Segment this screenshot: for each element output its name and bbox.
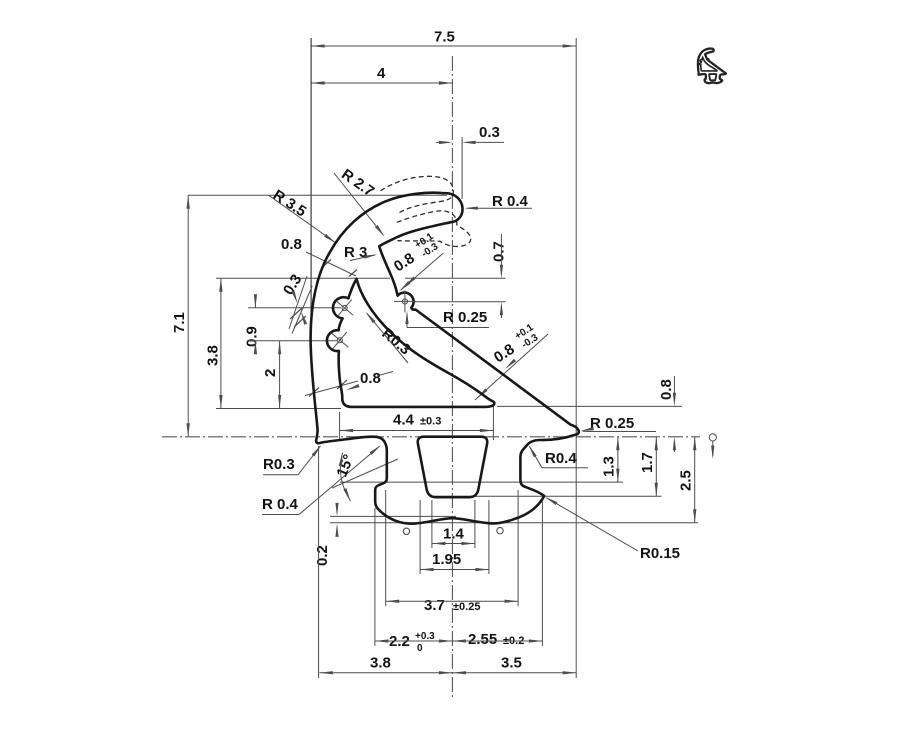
ext y=278.3 left — [216, 277, 390, 279]
svg-text:R 0.4: R 0.4 — [492, 193, 529, 210]
svg-text:1.3: 1.3 — [601, 456, 618, 477]
ext y=522.8 — [330, 522, 698, 524]
dim 4 line — [311, 82, 452, 84]
svg-text:3.8: 3.8 — [205, 345, 222, 366]
ext 3.8/3.5 bottom — [318, 446, 320, 678]
ext y=278.3 right — [405, 277, 506, 279]
dim 0.8 tol blade root — [389, 231, 442, 276]
ext 0.3 top — [461, 137, 463, 199]
center mark blade nub — [394, 290, 416, 312]
ext y=307.8 — [248, 307, 341, 309]
svg-text:4: 4 — [377, 65, 386, 82]
svg-text:0.3: 0.3 — [479, 124, 500, 141]
svg-text:2.5: 2.5 — [678, 470, 695, 491]
ext y=408.5 left — [216, 408, 341, 410]
ext y=482.1 — [340, 481, 623, 483]
svg-text:R0.15: R0.15 — [640, 545, 680, 562]
svg-text:0.9: 0.9 — [244, 326, 261, 347]
foot small circle right — [497, 527, 503, 533]
cavity (hollow chamber) — [327, 279, 494, 407]
svg-text:±0.3: ±0.3 — [420, 416, 441, 428]
dim 0.8 tol blade — [489, 322, 542, 367]
svg-text:1.95: 1.95 — [432, 551, 461, 568]
svg-text:R 0.25: R 0.25 — [443, 309, 487, 326]
svg-text:R0.3: R0.3 — [263, 456, 295, 473]
center mark cavity nub2 — [324, 325, 355, 356]
trapezoid slot in foot — [418, 437, 488, 498]
ext 1.4 — [431, 500, 433, 548]
datum mark — [709, 434, 716, 441]
svg-text:±0.25: ±0.25 — [453, 601, 480, 613]
dim 0.3 top line — [466, 141, 504, 143]
vertical centerline (dash-dot) — [451, 56, 453, 700]
svg-text:0.8: 0.8 — [281, 236, 302, 253]
svg-text:1.4: 1.4 — [443, 526, 465, 543]
svg-text:7.5: 7.5 — [434, 29, 455, 46]
svg-text:R 0.4: R 0.4 — [262, 496, 299, 513]
horizontal baseline datum (dash-dot) — [162, 436, 700, 438]
ext y=340.8 — [248, 340, 337, 342]
ext 4.4 right — [492, 405, 494, 440]
svg-text:0.8: 0.8 — [658, 379, 675, 400]
svg-text:7.1: 7.1 — [171, 312, 188, 333]
svg-text:R 0.25: R 0.25 — [590, 415, 634, 432]
svg-text:0.7: 0.7 — [491, 241, 508, 262]
svg-text:4.4: 4.4 — [393, 412, 415, 429]
ext y=301.7 — [413, 301, 506, 303]
ext 3.7 — [385, 490, 387, 606]
foot small circle left — [403, 528, 409, 534]
svg-text:0.8: 0.8 — [360, 370, 381, 387]
svg-text:3.5: 3.5 — [501, 655, 522, 672]
ext y=496.2 — [430, 495, 662, 497]
svg-text:3.8: 3.8 — [370, 655, 391, 672]
ext line left x=311 — [310, 38, 312, 332]
main profile outline — [311, 193, 579, 524]
ext top y=195 — [188, 194, 447, 196]
svg-text:R 3: R 3 — [344, 244, 367, 261]
svg-text:3.7: 3.7 — [424, 597, 445, 614]
center mark cavity nub1 — [329, 293, 360, 324]
svg-text:R0.4: R0.4 — [545, 450, 577, 467]
dim 7.5 line — [311, 45, 576, 47]
dashed lip position B — [397, 211, 471, 247]
logo mini profile — [698, 49, 726, 84]
ext 1.95 — [419, 500, 421, 574]
svg-text:0.2: 0.2 — [314, 545, 331, 566]
ext 4.4 left — [339, 412, 341, 440]
svg-text:+0.3: +0.3 — [415, 631, 435, 642]
svg-text:1.7: 1.7 — [639, 452, 656, 473]
ext y=406.4 right — [497, 405, 682, 407]
svg-text:2: 2 — [262, 369, 279, 377]
ext line right x=576 — [575, 38, 577, 678]
svg-text:0: 0 — [417, 643, 423, 654]
ext 2.2/2.55 — [374, 508, 376, 646]
dashed lip position A — [381, 176, 454, 212]
svg-text:2.55: 2.55 — [468, 631, 497, 648]
ext y=516.4 — [330, 515, 456, 517]
